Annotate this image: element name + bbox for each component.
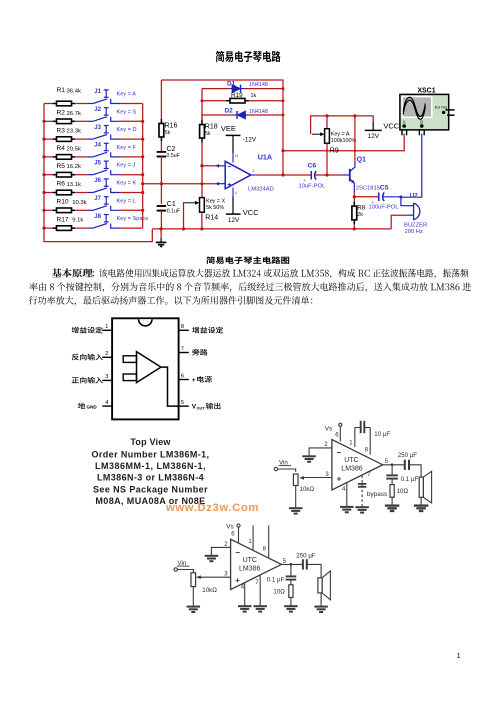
- svg-text:R17: R17: [57, 216, 69, 223]
- svg-text:B: B: [420, 119, 423, 124]
- svg-text:−: −: [235, 548, 240, 557]
- svg-text:4: 4: [342, 487, 346, 493]
- paragraph line 2: [29, 282, 471, 292]
- switch J3 (Key = D): [88, 138, 93, 140]
- svg-text:5k 50%: 5k 50%: [206, 205, 224, 211]
- svg-text:VCC: VCC: [243, 208, 259, 217]
- svg-text:6: 6: [335, 433, 339, 439]
- svg-text:C2: C2: [167, 146, 176, 153]
- op-amp power pins: [232, 153, 234, 163]
- switch J1 (Key = A): [88, 103, 93, 105]
- svg-text:D2: D2: [225, 107, 234, 114]
- wire: [295, 486, 297, 509]
- svg-text:6: 6: [181, 373, 184, 379]
- svg-text:100k100%: 100k100%: [331, 138, 357, 144]
- transistor Q1 2SC1815: [342, 174, 350, 176]
- svg-text:8: 8: [365, 448, 369, 454]
- svg-text:12V: 12V: [228, 217, 240, 224]
- svg-text:5k: 5k: [205, 131, 211, 137]
- svg-text:J4: J4: [94, 143, 101, 149]
- speaker: [318, 578, 322, 593]
- potentiometer 10k: [191, 573, 196, 587]
- resistor R3: [44, 138, 53, 140]
- svg-text:11: 11: [235, 154, 239, 158]
- wire: [120, 209, 143, 211]
- svg-text:Key = F: Key = F: [117, 145, 137, 151]
- wire: [160, 184, 162, 204]
- pin 6: [179, 379, 189, 381]
- svg-text:1: 1: [349, 440, 353, 446]
- svg-text:1N4148: 1N4148: [249, 82, 268, 88]
- wire: scope channel B tap: [401, 134, 422, 198]
- potentiometer 10k: [293, 474, 298, 486]
- ground: [160, 229, 162, 238]
- oscilloscope XSC1: [400, 94, 449, 129]
- zobel 0.1uF + 10ohm: [391, 465, 393, 475]
- svg-text:1: 1: [457, 651, 461, 660]
- pin 7: [179, 352, 189, 354]
- svg-text:100uF-POL: 100uF-POL: [369, 205, 400, 211]
- svg-text:Vs: Vs: [226, 524, 233, 531]
- svg-text:R9: R9: [330, 147, 339, 154]
- potentiometer R9 (Key = A, 100k 100%): [326, 116, 328, 129]
- svg-text:10.3k: 10.3k: [72, 200, 86, 206]
- wire: [120, 174, 143, 176]
- wire: collector to VCC line: [354, 116, 356, 162]
- svg-text:20.5k: 20.5k: [67, 146, 81, 152]
- svg-text:200 Hz: 200 Hz: [405, 229, 423, 235]
- switch J2 (Key = S): [88, 120, 93, 122]
- svg-text:Key = D: Key = D: [117, 127, 137, 133]
- svg-text:R4: R4: [57, 145, 66, 152]
- svg-text:UTC: UTC: [243, 557, 257, 564]
- svg-text:250 µF: 250 µF: [398, 452, 418, 459]
- resistor R6: [44, 192, 53, 194]
- wire: right switch bus: [142, 104, 144, 229]
- op-amp triangle UTC LM386: [231, 539, 282, 589]
- svg-text:VEE: VEE: [221, 124, 236, 133]
- svg-text:10Ω: 10Ω: [397, 488, 409, 495]
- capacitor 250uF: [302, 559, 304, 569]
- power VEE -12V: [232, 135, 234, 153]
- svg-text:J6: J6: [94, 178, 101, 184]
- pin 1: [102, 329, 112, 331]
- svg-text:U1A: U1A: [258, 152, 273, 161]
- pin 4: [102, 405, 112, 407]
- svg-text:Key = J: Key = J: [117, 163, 136, 169]
- svg-text:R8: R8: [357, 204, 365, 211]
- svg-text:13.1k: 13.1k: [67, 182, 81, 188]
- zobel 0.1uF + 10ohm: [290, 564, 292, 576]
- switch J7 (Key = L): [88, 209, 93, 211]
- svg-text:7: 7: [181, 346, 184, 352]
- resistor R8 2k: [353, 202, 355, 207]
- wire: [120, 138, 143, 140]
- svg-text:10 µF: 10 µF: [374, 431, 390, 438]
- svg-text:Top View: Top View: [130, 437, 171, 447]
- svg-text:9.1k: 9.1k: [72, 218, 83, 224]
- wire: [120, 120, 143, 122]
- svg-text:R10: R10: [57, 199, 69, 206]
- resistor R16: [160, 80, 162, 119]
- svg-text:7: 7: [367, 472, 371, 478]
- paragraph line 3: [29, 296, 313, 306]
- svg-text:+: +: [192, 377, 196, 384]
- capacitor C5 100uF-POL: [378, 193, 380, 202]
- wire: emitter node: [353, 192, 355, 202]
- op-amp triangle UTC LM386: [332, 440, 383, 490]
- svg-text:+: +: [303, 178, 306, 183]
- document title: [216, 51, 281, 62]
- svg-text:+: +: [337, 475, 342, 484]
- capacitor C1: [157, 205, 167, 207]
- svg-text:R16: R16: [165, 123, 178, 130]
- svg-text:Vs: Vs: [325, 425, 332, 432]
- wire: top bias line: [311, 116, 373, 134]
- svg-text:bypass: bypass: [367, 491, 387, 498]
- svg-text:1N4148: 1N4148: [249, 109, 268, 115]
- capacitor 10uF: [360, 421, 362, 433]
- switch J4 (Key = F): [88, 156, 93, 158]
- svg-text:U2: U2: [410, 193, 418, 200]
- svg-text:0.1 µF: 0.1 µF: [401, 476, 419, 483]
- diode D1 1N4148: [202, 88, 231, 90]
- paragraph line 1: [52, 268, 93, 277]
- svg-text:Key = A: Key = A: [117, 92, 137, 98]
- svg-text:LM386MM-1, LM386N-1,: LM386MM-1, LM386N-1,: [95, 461, 206, 471]
- power VCC 12V (op-amp): [232, 197, 234, 215]
- svg-text:Key = Space: Key = Space: [117, 216, 149, 222]
- svg-text:5: 5: [181, 400, 184, 406]
- svg-text:R19: R19: [231, 92, 243, 99]
- svg-text:C5: C5: [380, 184, 389, 191]
- svg-text:+: +: [372, 200, 375, 205]
- capacitor C2: [157, 151, 167, 153]
- svg-text:See NS Package Number: See NS Package Number: [93, 484, 208, 494]
- buzzer U2 200 Hz: [401, 197, 406, 206]
- svg-text:2k: 2k: [357, 212, 363, 218]
- wire: scope channel A tap: [283, 134, 404, 151]
- resistor R18: [201, 114, 203, 120]
- wire: [120, 227, 143, 229]
- svg-text:0.5uF: 0.5uF: [167, 153, 180, 159]
- ground: [289, 507, 303, 509]
- wire: left vertical bus: [44, 104, 152, 242]
- pin 3: [102, 379, 112, 381]
- wire: bottom ground rail: [152, 228, 391, 230]
- wire: top feedback line: [161, 80, 283, 175]
- svg-text:250 µF: 250 µF: [296, 552, 316, 559]
- wire: op-amp output: [257, 174, 311, 176]
- svg-text:1: 1: [105, 324, 108, 330]
- wire: feedback left rail: [201, 89, 203, 121]
- svg-text:2: 2: [105, 351, 108, 357]
- svg-text:8: 8: [181, 324, 184, 330]
- svg-text:Key = L: Key = L: [117, 198, 136, 204]
- wire: buzzer return to ground rail: [391, 215, 405, 229]
- svg-text:-12V: -12V: [243, 136, 257, 143]
- svg-text:5k: 5k: [165, 130, 171, 136]
- svg-text:Order Number LM386M-1,: Order Number LM386M-1,: [92, 449, 210, 459]
- bypass capacitor: [358, 483, 366, 485]
- svg-text:Ext Trig: Ext Trig: [435, 105, 447, 109]
- svg-text:VCC: VCC: [383, 122, 399, 131]
- wire: inverting input node: [202, 165, 215, 167]
- svg-text:4: 4: [105, 400, 108, 406]
- svg-text:5: 5: [385, 459, 389, 465]
- svg-text:6: 6: [231, 531, 235, 537]
- svg-text:J5: J5: [94, 160, 101, 166]
- svg-text:Key = K: Key = K: [117, 181, 137, 187]
- svg-text:10kΩ: 10kΩ: [300, 486, 315, 493]
- svg-text:Key = S: Key = S: [117, 109, 137, 115]
- svg-text:XSC1: XSC1: [417, 87, 435, 94]
- svg-text:16.2k: 16.2k: [67, 164, 81, 170]
- svg-text:7: 7: [255, 580, 259, 586]
- svg-text:1: 1: [252, 169, 254, 173]
- section heading: [206, 256, 289, 264]
- potentiometer R14 (Key = X, 5k 50%): [200, 198, 205, 213]
- svg-text:3: 3: [105, 374, 108, 380]
- svg-text:10kΩ: 10kΩ: [202, 587, 217, 594]
- svg-text:R14: R14: [205, 214, 218, 221]
- svg-text:LM386: LM386: [341, 466, 363, 473]
- svg-text:BUZZER: BUZZER: [404, 223, 427, 229]
- wire: [120, 103, 143, 105]
- svg-text:10Ω: 10Ω: [273, 588, 285, 595]
- svg-text:R5: R5: [57, 163, 66, 170]
- resistor R10: [44, 209, 53, 211]
- op-amp U1A LM324AD: [225, 161, 251, 189]
- svg-text:1k: 1k: [251, 93, 257, 99]
- pinout labels (Chinese): [72, 327, 103, 334]
- svg-text:LM386N-3 or LM386N-4: LM386N-3 or LM386N-4: [97, 473, 204, 483]
- svg-text:J3: J3: [94, 125, 101, 131]
- svg-text:2: 2: [324, 442, 328, 448]
- wire: output to pin 5: [161, 367, 179, 406]
- svg-text:23.3k: 23.3k: [67, 129, 81, 135]
- svg-text:C6: C6: [308, 163, 317, 170]
- svg-text:UTC: UTC: [344, 457, 358, 464]
- svg-text:2SC1815: 2SC1815: [356, 185, 380, 191]
- wire to speaker: [307, 564, 321, 577]
- pin 2: [102, 356, 112, 358]
- resistor R19: [202, 100, 227, 102]
- svg-text:LM386: LM386: [239, 565, 261, 572]
- svg-text:26.7k: 26.7k: [67, 111, 81, 117]
- svg-text:+: +: [227, 182, 231, 189]
- svg-text:+: +: [235, 576, 240, 585]
- pin 5: [179, 405, 189, 407]
- svg-text:4: 4: [235, 191, 237, 195]
- svg-text:Key = X: Key = X: [206, 199, 225, 205]
- svg-text:12V: 12V: [368, 133, 380, 140]
- svg-text:R3: R3: [57, 127, 66, 134]
- svg-text:R1: R1: [57, 87, 66, 94]
- wire: [120, 156, 143, 158]
- svg-text:J1: J1: [94, 89, 101, 95]
- svg-text:0.1 µF: 0.1 µF: [267, 576, 285, 583]
- svg-text:3: 3: [224, 571, 228, 577]
- svg-text:R2: R2: [57, 110, 66, 117]
- svg-text:R18: R18: [205, 124, 218, 131]
- svg-text:D1: D1: [227, 81, 236, 88]
- speaker: [419, 477, 423, 497]
- capacitor 250uF: [404, 460, 406, 470]
- svg-text:8: 8: [263, 546, 267, 552]
- resistor R4: [44, 156, 53, 158]
- svg-text:10uF-POL: 10uF-POL: [299, 183, 327, 189]
- wire to speaker: [409, 465, 421, 477]
- svg-text:R6: R6: [57, 181, 66, 188]
- IC package LM386 top view: [112, 318, 179, 419]
- resistor R17: [44, 227, 53, 229]
- ground: [414, 504, 429, 506]
- node: oscillator input branch to op-amp +: [143, 183, 216, 185]
- svg-text:J2: J2: [94, 107, 101, 113]
- svg-text:−: −: [337, 448, 342, 457]
- svg-text:C1: C1: [167, 201, 176, 208]
- switch J8 (Key = Space): [88, 227, 93, 229]
- svg-text:Q1: Q1: [357, 157, 366, 164]
- op-amp symbol inside package: [137, 352, 161, 383]
- diode D2 1N4148: [202, 114, 233, 116]
- svg-text:LM324AD: LM324AD: [248, 187, 274, 193]
- svg-text:Key = A: Key = A: [331, 132, 350, 138]
- svg-text:www.Dz3w.Com: www.Dz3w.Com: [165, 502, 259, 514]
- svg-text:0.1uF: 0.1uF: [167, 208, 180, 214]
- svg-text:36.4k: 36.4k: [67, 88, 81, 94]
- svg-text:GND: GND: [87, 405, 98, 410]
- resistor R2: [44, 120, 53, 122]
- capacitor C6 10uF-POL: [310, 171, 312, 180]
- svg-text:1: 1: [248, 539, 252, 545]
- pin 8: [179, 329, 189, 331]
- switch J5 (Key = J): [88, 174, 93, 176]
- resistor R5: [44, 174, 53, 176]
- svg-text:J7: J7: [94, 196, 101, 202]
- resistor R1: [44, 103, 53, 105]
- svg-text:OUT: OUT: [197, 407, 206, 411]
- svg-text:A: A: [403, 119, 406, 124]
- svg-text:J8: J8: [94, 214, 101, 220]
- wire: [120, 192, 143, 194]
- svg-text:−: −: [227, 164, 231, 171]
- switch J6 (Key = K): [88, 192, 93, 194]
- power VCC 12V (bias): [372, 116, 373, 121]
